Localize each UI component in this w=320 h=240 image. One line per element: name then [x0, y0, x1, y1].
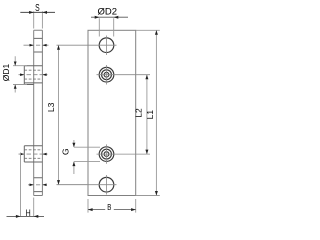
side view plate outline: [34, 30, 43, 195]
hole 2 centerlines: [97, 65, 151, 85]
hole 1 side-view lines: [34, 38, 43, 52]
boss block at hole 3: [24, 146, 42, 162]
dimension L1: [136, 30, 160, 195]
hole 1 centerlines: [57, 36, 117, 56]
svg-text:L2: L2: [134, 108, 144, 118]
svg-text:L1: L1: [145, 110, 155, 120]
hole 3 centerlines: [97, 144, 151, 163]
thread hidden lines hole 2: [24, 70, 42, 79]
dimension G: [74, 140, 100, 174]
svg-text:G: G: [61, 148, 71, 155]
hole 4 centerlines: [57, 175, 117, 195]
dimension OD1: [13, 56, 27, 92]
hole 4 side centerline: [28, 184, 47, 186]
svg-text:L3: L3: [46, 102, 56, 112]
svg-text:H: H: [26, 208, 31, 218]
hole 3: [99, 147, 114, 162]
dimension L2: [146, 75, 148, 154]
hole 4 side-view lines: [34, 178, 43, 192]
svg-text:S: S: [35, 1, 40, 13]
front view plate outline: [88, 30, 136, 195]
hole 4: [99, 177, 114, 192]
svg-text:ØD2: ØD2: [98, 7, 118, 18]
svg-text:B: B: [107, 202, 111, 212]
dimension B: [88, 199, 136, 213]
dimension S: [34, 11, 43, 28]
dimension OD2: [99, 18, 113, 36]
hole 2 side centerline: [19, 74, 48, 76]
hole 1 side centerline: [24, 44, 49, 46]
dimension L3: [57, 45, 88, 184]
hole 3 side centerline: [19, 153, 48, 155]
boss block at hole 2: [24, 66, 42, 85]
hole 2: [99, 67, 114, 82]
dimension H: [21, 153, 34, 217]
svg-text:ØD1: ØD1: [1, 63, 11, 81]
hole 1: [99, 38, 114, 53]
thread hidden lines hole 3: [24, 150, 42, 159]
